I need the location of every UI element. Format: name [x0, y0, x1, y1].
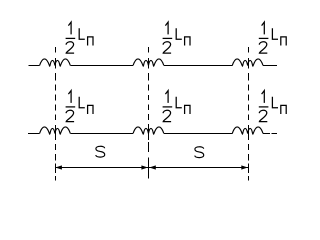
label 1/2 Ln bottom-left [66, 91, 93, 122]
dimension label S left [96, 146, 105, 157]
dashed centerline 1 [55, 47, 57, 180]
inductor L6 bottom-right [232, 127, 263, 134]
dashed centerline 2 [148, 47, 150, 179]
arrowhead right [241, 165, 248, 169]
inductor L3 top-right [232, 59, 263, 66]
dimension label S right [195, 147, 204, 158]
wire top rail segments [29, 65, 278, 67]
label 1/2 Ln bottom-middle [163, 91, 190, 122]
inductor L4 bottom-left [40, 127, 71, 134]
inductor L1 top-left [40, 59, 71, 66]
arrowhead left [55, 165, 62, 169]
inductor L2 top-middle [133, 59, 164, 66]
dimension line [55, 167, 248, 169]
arrowhead middle-left [141, 165, 148, 169]
label 1/2 Ln bottom-right [259, 91, 286, 122]
dashed centerline 3 [248, 47, 250, 180]
arrowhead middle-right [149, 165, 156, 169]
wire bottom rail segments [28, 133, 277, 135]
label 1/2 Ln top-middle [163, 22, 190, 53]
label 1/2 Ln top-right [259, 22, 286, 53]
inductor L5 bottom-middle [133, 127, 164, 134]
label 1/2 Ln top-left [66, 22, 93, 53]
